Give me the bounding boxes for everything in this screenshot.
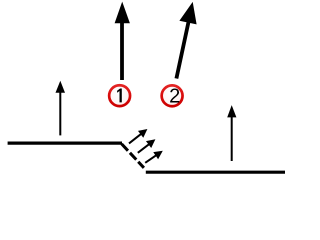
- small normal arrow on left surface: [56, 81, 66, 136]
- small normal arrow on right surface: [227, 105, 236, 161]
- incline normal arrow B: [138, 139, 156, 153]
- big force arrow 1 (vertical): [115, 2, 130, 80]
- label circle 2: [162, 85, 183, 106]
- dashed incline line: [122, 144, 144, 168]
- right surface line: [146, 171, 285, 174]
- incline normal arrow C: [145, 151, 163, 163]
- left surface line: [8, 142, 122, 145]
- incline normal arrow A: [129, 129, 147, 143]
- big force arrow 2 (tilted): [176, 2, 196, 79]
- label circle 1: [109, 85, 130, 106]
